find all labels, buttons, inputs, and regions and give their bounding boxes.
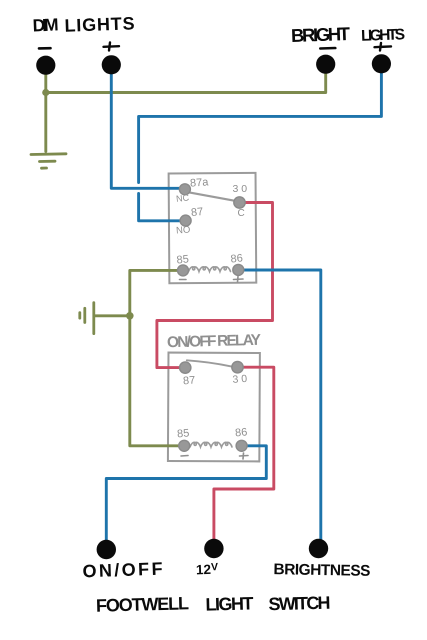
relay K1 pin label plus (234, 277, 244, 283)
svg-text:SWITCH: SWITCH (268, 593, 331, 615)
junction J2 on olive net at ground G2 (126, 312, 134, 320)
terminal bright lights plus polarity mark (375, 43, 392, 51)
svg-text:87: 87 (183, 375, 196, 388)
relay K1 pin 30 (C) (234, 197, 245, 208)
svg-text:87: 87 (190, 206, 203, 219)
terminal bright lights plus (372, 54, 391, 73)
caption FOOTWELL LIGHT SWITCH (96, 593, 331, 616)
ground G1 (31, 154, 66, 168)
terminal on/off (97, 540, 116, 559)
relay K1 pin 87 (NO) (180, 215, 191, 226)
terminal bright lights minus (316, 55, 335, 74)
wire olive: dim minus to ground G1 (44, 66, 47, 152)
wire blue: relay K1 pin 86 to brightness terminal (240, 270, 321, 543)
svg-text:85: 85 (177, 427, 190, 440)
svg-text:3 0: 3 0 (232, 373, 248, 386)
relay K2 pin 85 (179, 440, 190, 451)
svg-text:BRIGHTNESS: BRIGHTNESS (273, 561, 370, 580)
relay K1 body (high/low relay) (169, 173, 257, 283)
ground G2 (rotated, pointing left) (80, 303, 94, 334)
svg-text:FOOTWELL: FOOTWELL (96, 593, 189, 615)
svg-text:NO: NO (176, 225, 191, 237)
svg-text:NC: NC (176, 192, 190, 203)
svg-text:87a: 87a (190, 176, 210, 189)
wire blue: relay K2 pin 86 to on/off terminal (106, 446, 266, 543)
wire red: relay K2 pin 30 to 12V terminal (214, 367, 274, 543)
terminal dim lights plus (102, 55, 121, 74)
svg-text:85: 85 (176, 253, 189, 266)
relay K1 pin 87a (NC) (179, 184, 190, 195)
svg-text:86: 86 (235, 426, 248, 439)
relay K2 pin 87 (180, 362, 191, 373)
svg-text:BRIGHT: BRIGHT (291, 23, 351, 46)
relay K1 pin 86 (233, 264, 244, 275)
wire olive: relay K1 pin 85 to relay K2 pin 85 (130, 270, 184, 445)
relay K2 pin label plus (240, 453, 249, 459)
relay K2 pin label minus (181, 455, 188, 458)
relay K1 pin 85 (178, 265, 189, 276)
svg-text:LIGHT: LIGHT (205, 593, 254, 614)
svg-text:LIGHTS: LIGHTS (64, 13, 135, 35)
relay K1 pin label minus (180, 279, 187, 281)
relay K2 body (on/off relay) (168, 353, 260, 462)
svg-text:86: 86 (230, 252, 243, 265)
relay K2 pin 86 (236, 440, 247, 451)
relay K1 coil between pins 85 and 86 (189, 267, 231, 272)
terminal 12V (204, 539, 223, 558)
terminal brightness (309, 539, 328, 558)
wire blue: bright plus to relay K1 pin 87 (lower part after hop gap) (139, 194, 183, 221)
relay K2 coil between pins 85 and 86 (190, 442, 232, 447)
svg-text:LIGHTS: LIGHTS (361, 26, 406, 45)
junction J1 on olive net at dim minus (42, 89, 49, 96)
wire olive: dim minus junction to bright minus (46, 66, 326, 93)
svg-text:DIM: DIM (32, 14, 59, 35)
wire olive: ground G2 stub to junction J2 (95, 314, 130, 317)
svg-text:ON/OFF RELAY: ON/OFF RELAY (167, 332, 262, 351)
terminal dim lights minus polarity mark (39, 47, 51, 50)
svg-text:3 0: 3 0 (233, 183, 248, 195)
relay K2 pin 30 (232, 362, 243, 373)
terminal dim lights plus polarity mark (104, 43, 120, 51)
wire blue: dim plus to relay K1 pin 87a (111, 66, 182, 188)
svg-text:C: C (238, 208, 245, 219)
terminal dim lights minus (36, 56, 55, 75)
wire blue: bright plus to relay K1 pin 87 (upper part, with hop gap) (139, 65, 382, 183)
relay K2 switch arm 87-to-30 (open) (187, 360, 231, 366)
terminal bright lights minus polarity mark (320, 47, 335, 50)
relay K1 switch arm 87a-to-30 (189, 192, 236, 201)
wire red: relay K1 pin 30/C to relay K2 pin 87 (157, 203, 273, 368)
